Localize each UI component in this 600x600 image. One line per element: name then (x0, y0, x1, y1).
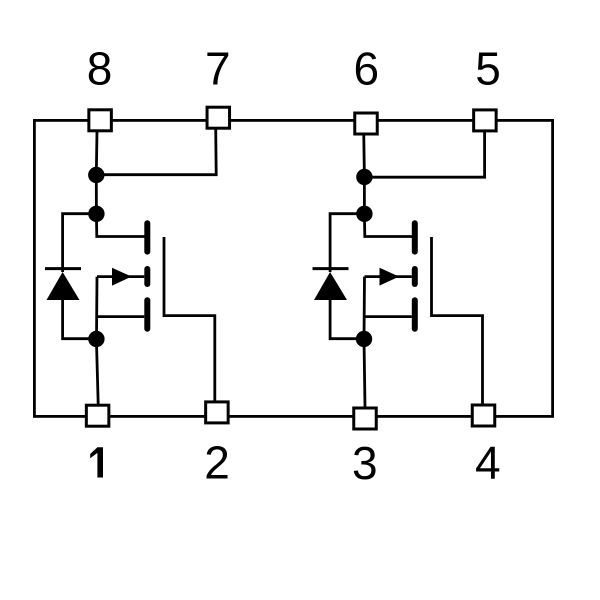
wire source node to pin 1 (96, 339, 98, 405)
wire Q2 body arrow shaft (365, 275, 412, 278)
svg-text:8: 8 (87, 43, 113, 95)
wire source node to pin 3 (364, 339, 365, 408)
wire drain node to Q2 drain bar (364, 214, 412, 237)
D2 cathode bar (313, 267, 349, 270)
pin 6 terminal (355, 113, 378, 134)
junction dot drain node Q1 upper (88, 167, 104, 183)
wire drain node to diode D2 cathode (330, 214, 364, 272)
pin 8 terminal (89, 110, 112, 131)
Q2 source channel bar (412, 300, 418, 328)
svg-text:5: 5 (475, 43, 501, 95)
wire Q2 gate to pin 4 (432, 237, 483, 404)
pin 7 terminal (207, 107, 230, 128)
pin 2 terminal (206, 402, 229, 423)
transistor Q2 (380, 223, 415, 329)
wire pin 8 to drain node (95, 131, 98, 175)
svg-text:7: 7 (205, 43, 231, 95)
body diode D1 (45, 269, 81, 300)
body diode D2 (313, 269, 349, 300)
junction dot source node Q1 (88, 331, 104, 347)
D1 anode triangle (47, 272, 80, 300)
svg-text:2: 2 (204, 436, 230, 488)
wire diode D2 anode to source node (330, 300, 364, 339)
Q1 body arrow head (112, 268, 132, 286)
Q2 drain channel bar (412, 223, 418, 251)
svg-text:3: 3 (352, 437, 378, 489)
wire Q1 source bar to source node (97, 315, 145, 318)
wire pin 7 to drain node (97, 129, 217, 175)
wire drain node to diode D1 cathode (63, 214, 97, 272)
junction dot drain node Q1 lower (88, 206, 104, 222)
Q2 body arrow head (380, 268, 400, 286)
wire Q1 gate to pin 2 (164, 237, 215, 401)
wire pin 5 to drain node (364, 132, 484, 178)
pin 1 label (90, 447, 103, 477)
Q1 body channel bar (144, 269, 150, 284)
Q1 drain channel bar (144, 223, 150, 251)
wire drain node to Q1 drain bar (96, 214, 144, 237)
Q2 body channel bar (412, 269, 418, 284)
junction dot source node Q2 (356, 331, 372, 347)
transistor Q1 (112, 223, 147, 329)
wire Q1 body arrow shaft (97, 275, 144, 278)
svg-text:4: 4 (475, 436, 501, 488)
package outline (34, 120, 552, 416)
wire Q2 source bar to source node (364, 315, 412, 318)
wire Q2 body to source node (363, 277, 366, 339)
pin 4 terminal (472, 405, 495, 426)
Q1 source channel bar (144, 300, 150, 328)
wire drain node column Q1 (95, 175, 98, 214)
svg-text:6: 6 (353, 43, 379, 95)
wire diode D1 anode to source node (63, 300, 97, 339)
wire drain node column Q2 (363, 177, 366, 214)
D2 anode triangle (314, 272, 347, 300)
D1 cathode bar (45, 267, 81, 270)
junction dot drain node Q2 upper (356, 169, 372, 185)
wire Q1 body to source node (95, 277, 98, 339)
wire pin 6 to drain node (362, 134, 365, 177)
junction dot drain node Q2 lower (356, 206, 372, 222)
pin 3 terminal (354, 408, 377, 429)
pin 5 terminal (474, 110, 497, 131)
pin 1 terminal (86, 405, 109, 426)
